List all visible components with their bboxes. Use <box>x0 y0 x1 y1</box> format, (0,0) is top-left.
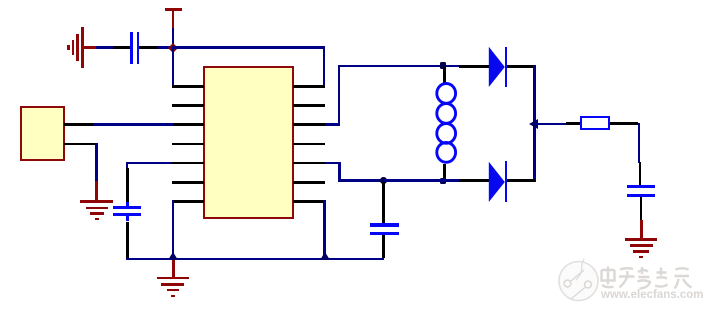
junction node C3 top <box>380 177 387 184</box>
pin C4 upper black <box>639 162 642 185</box>
pin R7 <box>293 200 326 203</box>
pin R1 right black <box>610 122 638 125</box>
pin D1 cathode black <box>507 65 536 68</box>
capacitor C3 top plate <box>370 223 399 226</box>
ground GND4 bar3 <box>633 250 649 253</box>
pin D2 anode black <box>459 179 489 182</box>
power VCC bar <box>165 8 182 11</box>
diode D2 cathode bar <box>505 161 508 201</box>
wire J1 to pin L3 <box>93 123 173 126</box>
ground GND3 stem red <box>172 260 175 277</box>
ground GND3 bar1 <box>157 277 189 280</box>
pin C4 lower black <box>640 197 643 221</box>
wire blue below C2 <box>126 216 129 221</box>
power VCC stem red <box>172 11 175 28</box>
watermark logo circle <box>556 258 602 306</box>
diode D2 triangle <box>488 161 506 203</box>
pin J1-2 black <box>64 143 96 146</box>
pin R3 <box>293 123 326 126</box>
inductor L1 coil4 <box>435 141 458 164</box>
wire rectifier top rail <box>338 65 460 68</box>
wire blue into C2 <box>126 202 129 207</box>
wire J1-2 down <box>95 143 98 182</box>
pin R2 <box>293 104 326 107</box>
ground GND1 top-left bar1 <box>67 45 70 51</box>
capacitor C2 top plate <box>113 206 141 209</box>
ground GND1 pin stub <box>84 46 96 49</box>
wire junction down to pin L1 <box>172 46 175 87</box>
wire R5 corner down <box>338 162 341 182</box>
inductor L1 coil1 <box>435 82 458 105</box>
wire top rail <box>173 46 325 49</box>
ground GND2 stem red <box>95 181 98 202</box>
wire pin R5 to corner <box>325 162 341 165</box>
pin D1 anode black <box>459 65 489 68</box>
wire R3 corner up <box>338 65 341 126</box>
ground GND2 bar1 <box>80 200 113 203</box>
pin L3 <box>172 123 204 126</box>
wire output to R1 <box>536 123 566 126</box>
wire N1 ground to C1 <box>96 46 113 49</box>
wire corner down blue <box>126 162 129 169</box>
diode D1 cathode bar <box>505 47 508 87</box>
pin R6 <box>293 181 326 184</box>
wire bottom rail <box>126 258 384 261</box>
pin L2 <box>172 104 204 107</box>
pin R1 <box>293 85 326 88</box>
ground GND4 stem red <box>640 220 643 239</box>
pin D2 cathode black <box>507 179 535 182</box>
ground GND2 bar2 <box>86 207 108 210</box>
capacitor C1 right plate <box>137 32 139 64</box>
wire corner down right <box>638 123 641 163</box>
ground GND3 bar2 <box>161 283 184 286</box>
ground GND2 bar3 <box>90 212 104 215</box>
watermark text chinese <box>598 264 693 291</box>
capacitor C4 top plate <box>627 185 655 188</box>
pin J1-1 black <box>64 123 93 126</box>
wire rectifier lower rail right <box>384 179 460 182</box>
ground GND4 bar4 <box>639 256 643 259</box>
pin R4 <box>293 143 326 146</box>
connector J1 body <box>20 106 64 161</box>
pin C1 left black <box>113 46 130 49</box>
wire pin L5 to corner <box>126 162 172 165</box>
pin L7 <box>172 200 204 203</box>
pin L1 inductor bottom black <box>443 164 446 182</box>
capacitor C4 bottom plate <box>627 194 655 197</box>
wire top rail corner down to pin R1 <box>323 46 326 87</box>
pin R5 <box>293 162 326 165</box>
ground GND1 top-left bar3 <box>76 34 79 60</box>
junction node L1 top <box>440 62 446 68</box>
capacitor C1 left plate <box>130 32 133 64</box>
junction arrow R7 rail <box>320 252 330 260</box>
resistor R1 body <box>580 116 610 130</box>
wire pin R7 corner down <box>323 200 326 258</box>
junction arrow GND3 <box>168 252 178 260</box>
wire pin L7 corner down <box>172 200 175 258</box>
pin L1 <box>172 85 204 88</box>
wire C1 to VCC junction <box>158 46 173 49</box>
pin R1 left black <box>566 122 580 125</box>
ground GND2 bar4 <box>95 218 99 220</box>
ground GND4 bar2 <box>630 244 653 247</box>
pin C1 right black <box>139 46 158 49</box>
wire rectifier lower rail left <box>338 179 384 182</box>
ground GND3 bar3 <box>167 289 180 292</box>
pin L5 <box>172 162 204 165</box>
wire rectifier right vertical <box>533 65 536 182</box>
pin L1 inductor top black <box>443 66 446 84</box>
pin L6 <box>172 181 204 184</box>
junction arrow output node <box>529 119 538 129</box>
inductor L1 coil3 <box>435 122 458 145</box>
wire black C2 to bottom rail <box>126 222 129 259</box>
capacitor C2 bottom plate <box>113 213 141 216</box>
IC U1 body <box>203 66 294 220</box>
ground GND1 top-left bar4 <box>81 27 84 67</box>
capacitor C3 bottom plate <box>370 232 399 235</box>
inductor L1 coil2 <box>435 102 458 125</box>
wire pin R3 to corner <box>325 123 340 126</box>
pin C3 upper black <box>382 182 385 224</box>
pin L4 <box>172 143 204 146</box>
ground GND1 top-left bar2 <box>72 40 75 55</box>
ground GND3 bar4 <box>171 295 176 298</box>
wire VCC stem blue <box>172 28 175 47</box>
ground GND4 bar1 <box>625 238 657 241</box>
junction node VCC diamond <box>168 43 178 53</box>
diode D1 triangle <box>488 46 506 88</box>
pin C3 lower black <box>382 235 385 259</box>
junction node L1 bottom <box>440 178 446 184</box>
wire black down to C2 <box>126 168 129 203</box>
watermark text url <box>601 289 706 301</box>
